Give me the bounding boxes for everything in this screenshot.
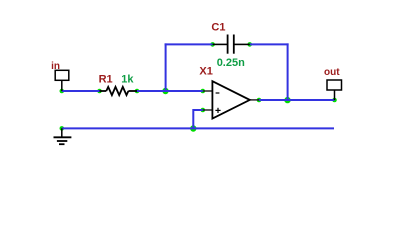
node: op-amp output pin [257,98,262,103]
wire: ground bus [62,127,334,129]
wire: non-inverting input horizontal [193,109,203,111]
node: C1 right pin [247,42,252,47]
label out [324,67,340,78]
node: op-amp inverting input pin [201,89,206,94]
op-amp X1 [203,81,259,118]
node: output feedback junction [284,97,290,103]
node: R1 right pin [135,89,140,94]
node: out port pin [332,98,337,103]
svg-text:0.25n: 0.25n [217,57,245,69]
value 0.25n [217,57,245,69]
svg-text:1k: 1k [121,74,134,86]
port out [327,80,342,100]
wire: non-inverting input vertical to ground bus [192,109,194,128]
wire: op-amp output to out port [259,99,335,101]
wire: feedback right vertical [287,43,289,100]
label C1 [211,21,225,33]
node: ground bus junction [190,125,196,131]
label R1 [99,74,113,86]
node: C1 left pin [210,42,215,47]
node: op-amp non-inverting input pin [201,108,206,113]
svg-text:out: out [324,67,340,78]
node: R1 left pin [97,89,102,94]
wire: in port to R1 [62,90,100,92]
svg-text:R1: R1 [99,74,113,86]
wire: C1 to feedback right corner [250,43,289,45]
resistor R1 [100,87,138,95]
label X1 [199,66,212,78]
node: in port pin [60,89,65,94]
svg-text:in: in [51,61,60,72]
node: ground pin [60,126,65,131]
wire: feedback left vertical [165,43,167,91]
node: feedback junction on input net [162,88,168,94]
wire: feedback top left to C1 [165,43,213,45]
value 1k [121,74,134,86]
svg-text:C1: C1 [211,21,225,33]
ground [54,128,72,144]
svg-text:X1: X1 [199,66,212,78]
wire: R1 to op-amp inverting input [137,90,203,92]
capacitor C1 [213,35,250,54]
label in [51,61,60,72]
port in [55,70,69,91]
